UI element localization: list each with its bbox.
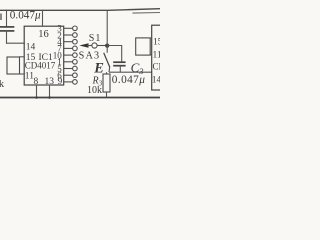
svg-text:11: 11 (153, 51, 161, 61)
labels IC1 right-side pin numbers (53, 24, 63, 81)
wire Vdd to IC1 pin16 (42, 10, 44, 26)
cropped fragment at top-left edge (0, 14, 2, 21)
svg-text:0.047μ: 0.047μ (10, 9, 41, 21)
svg-text:14: 14 (152, 76, 160, 86)
wire IC1 pin15 stub (20, 56, 25, 58)
capacitor C1 upper lead (6, 10, 8, 27)
resistor (between IC1 pin15 and pin11) (7, 57, 20, 74)
svg-text:k: k (0, 79, 5, 90)
wire IC2 pin11 stub (150, 54, 152, 56)
IC U2 (CD4017, cropped at right edge) box (152, 25, 172, 90)
wire arm bottom to RC node (108, 67, 111, 72)
pin 2 (Q1) (64, 33, 77, 38)
wire V+ rail down to junction (106, 10, 108, 53)
svg-text:13: 13 (45, 77, 55, 87)
wire ground bottom rail (0, 97, 160, 99)
wire R3 to ground rail (106, 92, 108, 98)
svg-text:14: 14 (26, 43, 36, 53)
svg-text:CD: CD (153, 62, 161, 72)
wire IC1 pin8 to ground (36, 85, 38, 98)
wire IC1 pin11 stub (20, 73, 25, 75)
pin 6 (Q7) (64, 73, 77, 78)
wire C1 to IC1 pin14 (7, 42, 25, 44)
wire RC node to IC2 pin14 (109, 71, 152, 73)
svg-text:16: 16 (38, 29, 49, 40)
svg-text:6: 6 (57, 71, 62, 81)
wire second V+ branch (top right, to off-frame IC2 Vdd) (133, 12, 160, 15)
switch S1 arm (104, 53, 110, 68)
wire junction to C3 top (107, 46, 122, 63)
capacitor C3 lower lead (119, 66, 121, 73)
pin 1 (Q5) (64, 60, 77, 65)
wire V+ top rail (0, 9, 160, 11)
capacitor C1 plates (1, 27, 14, 31)
node IC1 pin13 at ground rail (48, 96, 51, 99)
resistor (between IC2 pin15 and pin11) (136, 38, 151, 55)
node IC1 pin8 at ground rail (35, 96, 38, 99)
svg-text:8: 8 (34, 77, 39, 87)
node junction (switch bus) (105, 44, 109, 48)
svg-text:10k: 10k (87, 85, 102, 96)
selector switch SA3 wiper arrow (79, 43, 107, 48)
pin 3 (Q0) (64, 26, 77, 31)
pin 9 (Q8) (64, 80, 77, 85)
pin 4 (Q2) (64, 39, 77, 44)
pin 5 (Q6) (64, 66, 77, 71)
svg-text:CD4017: CD4017 (25, 61, 56, 71)
resistor R3 box (103, 74, 110, 92)
wire IC1 pin13 to ground (49, 85, 51, 98)
wire R3 top lead (106, 72, 108, 74)
svg-text:S1: S1 (89, 33, 102, 44)
pin 10 (Q4) (64, 53, 77, 58)
wire IC2 pin15 stub (150, 37, 152, 39)
IC1 output pins: stubs and contact circles (64, 26, 77, 84)
svg-text:15: 15 (153, 38, 160, 48)
wire pivot to junction (97, 45, 107, 47)
svg-text:0.047μ: 0.047μ (112, 74, 146, 86)
IC U1 CD4017 box (24, 26, 64, 85)
capacitor C1 lower lead (6, 31, 8, 43)
selector pivot circle (92, 43, 97, 48)
pin 7 (Q3) (64, 46, 77, 51)
capacitor C3 plates (113, 62, 125, 65)
svg-text:E: E (93, 60, 104, 76)
